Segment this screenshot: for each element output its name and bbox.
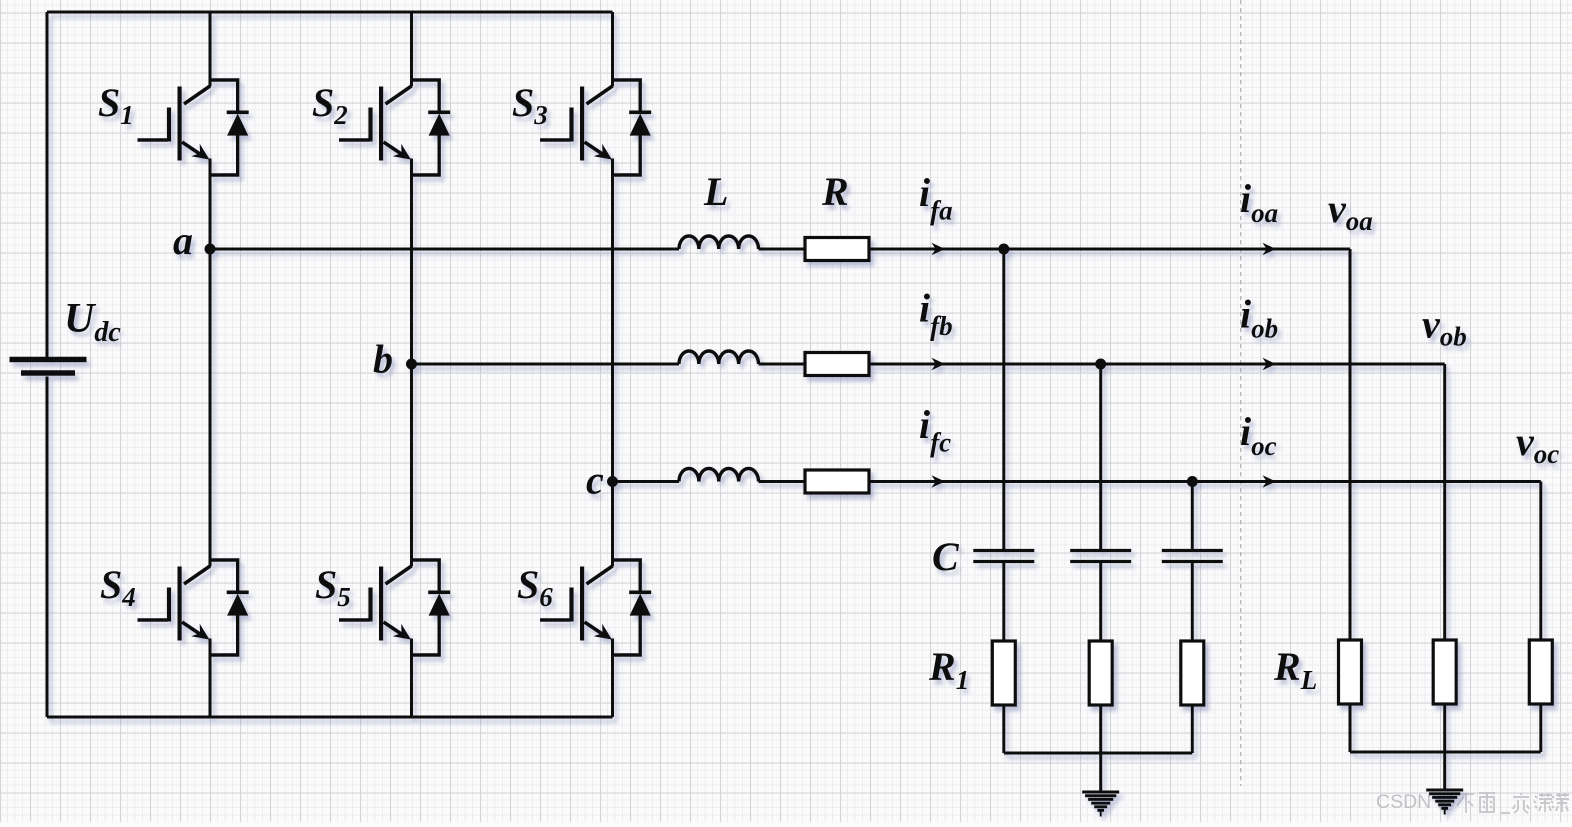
- resistor R phase c: [805, 470, 869, 493]
- wire: load b to common: [1443, 704, 1446, 752]
- wire: node c to S6 collector: [611, 482, 614, 567]
- battery Udc top plate: [10, 357, 87, 363]
- svg-text:c: c: [586, 458, 604, 503]
- wire: capacitor branch a upper: [1002, 249, 1005, 550]
- wire: load c branch: [1539, 482, 1542, 641]
- resistor R1 phase b: [1089, 641, 1112, 705]
- wire: load b branch: [1443, 364, 1446, 640]
- inductor L phase a: [679, 236, 759, 249]
- wire: load common bus: [1350, 751, 1541, 754]
- wire: load a branch: [1349, 249, 1352, 640]
- svg-text:C: C: [932, 534, 960, 579]
- current arrow i_fb: [932, 358, 946, 370]
- ground (load common): [1426, 790, 1463, 815]
- wire: phase a resistor to load corner: [869, 248, 1350, 251]
- wire: phase b resistor to load corner: [869, 363, 1445, 366]
- current arrow i_ob: [1263, 358, 1277, 370]
- wire: load a to common: [1349, 704, 1352, 752]
- ground (filter common): [1082, 792, 1119, 817]
- transistor S1 (IGBT with anti-parallel diode): [138, 80, 249, 175]
- node b junction dot: [406, 359, 417, 370]
- junction dot phase c / capacitor branch: [1187, 476, 1198, 487]
- wire: phase c from node c to inductor: [613, 480, 680, 483]
- capacitor C phase b: [1070, 551, 1131, 562]
- wire: S5 emitter to bottom bus: [410, 639, 413, 718]
- svg-text:b: b: [373, 337, 393, 382]
- wire: S2 emitter to node b: [410, 159, 413, 365]
- wire: S6 emitter to bottom bus: [611, 639, 614, 718]
- battery Udc bottom plate: [21, 370, 75, 376]
- resistor R1 phase a: [992, 641, 1015, 705]
- capacitor C phase c: [1162, 551, 1223, 562]
- wire: node a to S4 collector: [209, 249, 212, 567]
- wire: bottom DC bus: [47, 716, 613, 719]
- wire: leg b collector of S2: [410, 12, 413, 87]
- wire: capacitor branch b lower to R1: [1099, 562, 1102, 641]
- wire: left DC rail lower: [46, 377, 49, 718]
- current arrow i_fc: [932, 475, 946, 487]
- wire: load common to ground: [1443, 752, 1446, 790]
- wire: capacitor branch b upper: [1099, 364, 1102, 550]
- watermark: [1376, 791, 1569, 813]
- resistor R phase b: [805, 353, 869, 376]
- wire: capacitor branch c lower to R1: [1191, 562, 1194, 641]
- transistor S3 (IGBT with anti-parallel diode): [540, 80, 651, 175]
- wire: filter common bus: [1004, 752, 1193, 755]
- dashed page-boundary line: [1240, 0, 1242, 786]
- wire: phase a inductor to resistor R: [759, 248, 806, 251]
- transistor S5 (IGBT with anti-parallel diode): [339, 560, 450, 655]
- wire: phase b from node b to inductor: [412, 363, 680, 366]
- junction dot phase a / capacitor branch: [998, 244, 1009, 255]
- capacitor C phase a: [973, 551, 1034, 562]
- svg-text:R: R: [821, 169, 849, 214]
- svg-text:L: L: [703, 169, 728, 214]
- node a junction dot: [205, 244, 216, 255]
- wire: phase c inductor to resistor R: [759, 480, 806, 483]
- resistor R phase a: [805, 238, 869, 261]
- wire: S4 emitter to bottom bus: [209, 639, 212, 718]
- transistor S2 (IGBT with anti-parallel diode): [339, 80, 450, 175]
- wire: capacitor branch a lower to R1: [1002, 562, 1005, 641]
- wire: node b to S5 collector: [410, 364, 413, 567]
- wire: phase a from node a to inductor: [210, 248, 679, 251]
- wire: phase c resistor to load corner: [869, 480, 1541, 483]
- wire: S1 emitter to node a: [209, 159, 212, 250]
- resistor RL phase c: [1529, 640, 1552, 704]
- wire: filter common to ground: [1099, 753, 1102, 792]
- transistor S4 (IGBT with anti-parallel diode): [138, 560, 249, 655]
- wire: S3 emitter to node c: [611, 159, 614, 482]
- wire: phase b inductor to resistor R: [759, 363, 806, 366]
- wire: leg a collector of S1: [209, 12, 212, 87]
- wire: R1 b to common: [1099, 705, 1102, 753]
- node c junction dot: [607, 476, 618, 487]
- resistor R1 phase c: [1181, 641, 1204, 705]
- current arrow i_fa: [932, 243, 946, 255]
- inductor L phase b: [679, 351, 759, 364]
- inductor L phase c: [679, 469, 759, 482]
- current arrow i_oc: [1263, 475, 1277, 487]
- wire: load c to common: [1539, 704, 1542, 752]
- svg-text:a: a: [173, 218, 193, 263]
- wire: left DC rail upper: [46, 12, 49, 357]
- resistor RL phase b: [1433, 640, 1456, 704]
- wire: top DC bus: [47, 11, 613, 14]
- wire: R1 c to common: [1191, 705, 1194, 753]
- transistor S6 (IGBT with anti-parallel diode): [540, 560, 651, 655]
- wire: R1 a to common: [1002, 705, 1005, 753]
- junction dot phase b / capacitor branch: [1095, 359, 1106, 370]
- wire: capacitor branch c upper: [1191, 482, 1194, 551]
- resistor RL phase a: [1339, 640, 1362, 704]
- wire: leg c collector of S3: [611, 12, 614, 87]
- current arrow i_oa: [1263, 243, 1277, 255]
